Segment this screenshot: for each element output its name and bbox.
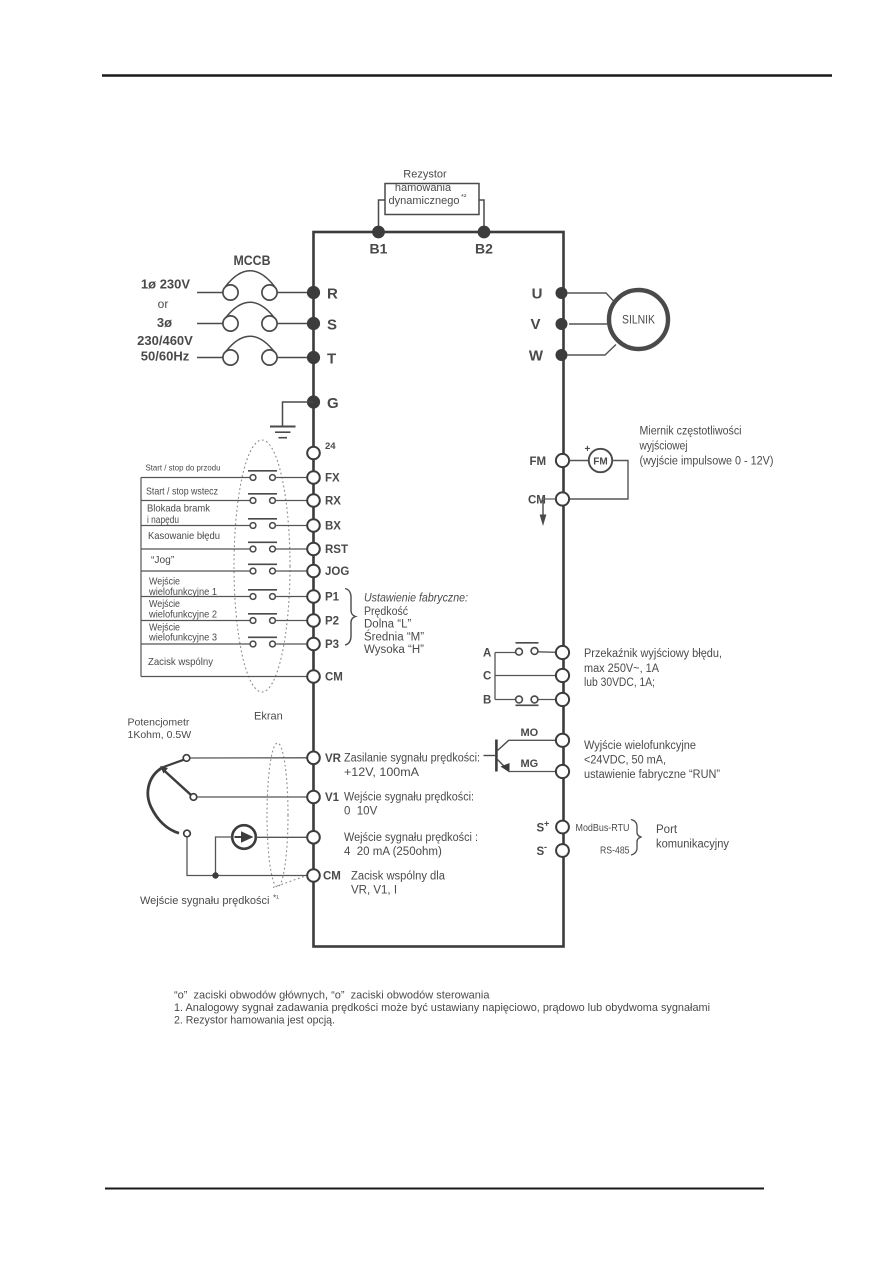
- svg-text:+: +: [585, 444, 591, 455]
- svg-text:U: U: [532, 286, 543, 303]
- terminal B1: [372, 226, 385, 239]
- svg-text:Rezystor: Rezystor: [403, 169, 447, 181]
- junction dot: [212, 872, 218, 878]
- potentiometer wiper terminal: [190, 794, 197, 801]
- svg-text:wielofunkcyjne 3: wielofunkcyjne 3: [148, 633, 217, 644]
- terminal FM: [556, 454, 569, 467]
- svg-text:2. Rezystor hamowania jest opc: 2. Rezystor hamowania jest opcją.: [174, 1015, 335, 1027]
- relay bracket wire: [494, 653, 496, 700]
- footnotes: [174, 990, 710, 1027]
- svg-text:“Jog”: “Jog”: [151, 555, 175, 566]
- wire emitter to MG: [509, 771, 556, 773]
- terminal W: [556, 349, 568, 361]
- terminal V: [556, 318, 568, 330]
- svg-text:MO: MO: [521, 727, 539, 739]
- svg-text:max 250V~, 1A: max 250V~, 1A: [584, 663, 659, 675]
- svg-text:50/60Hz: 50/60Hz: [141, 349, 190, 364]
- terminal S-: [556, 844, 569, 857]
- wire pot bottom to CM: [187, 837, 307, 876]
- terminal S: [307, 317, 320, 330]
- terminal B: [556, 693, 569, 706]
- svg-text:FM: FM: [530, 456, 547, 468]
- svg-text:A: A: [483, 648, 491, 660]
- svg-text:R: R: [327, 286, 338, 303]
- terminal A: [556, 646, 569, 659]
- svg-text:-: -: [544, 842, 547, 852]
- svg-text:RS-485: RS-485: [600, 846, 630, 857]
- svg-text:lub 30VDC, 1A;: lub 30VDC, 1A;: [584, 677, 655, 689]
- switch P3 (Wejscie wielofunkcyjne 3): [141, 623, 307, 647]
- svg-text:Zasilanie sygnału prędkości:: Zasilanie sygnału prędkości:: [344, 753, 480, 765]
- svg-text:MG: MG: [521, 758, 539, 770]
- terminal P2: [307, 614, 320, 627]
- switch RST (Kasowanie bledu): [141, 531, 307, 552]
- svg-text:P1: P1: [325, 592, 340, 604]
- svg-text:P2: P2: [325, 616, 339, 628]
- svg-text:or: or: [158, 297, 169, 311]
- svg-text:komunikacyjny: komunikacyjny: [656, 839, 729, 851]
- terminal CM analog: [307, 869, 320, 882]
- svg-text:S: S: [327, 317, 337, 334]
- wire G to ground: [283, 402, 314, 427]
- transistor (open collector output): [484, 740, 510, 773]
- potentiometer R track arc: [148, 767, 179, 833]
- terminal B2: [478, 226, 491, 239]
- svg-text:SILNIK: SILNIK: [622, 315, 655, 327]
- svg-text:B1: B1: [370, 241, 388, 257]
- svg-text:0 10V: 0 10V: [344, 806, 378, 818]
- FM annotation: [639, 426, 774, 468]
- potentiometer top terminal: [183, 755, 190, 762]
- terminal T: [307, 351, 320, 364]
- relay contact B (NO): [483, 695, 556, 707]
- FM meter: [569, 444, 612, 472]
- svg-text:wyjściowej: wyjściowej: [639, 441, 688, 453]
- motor SILNIK: [609, 290, 668, 349]
- shield ellipse (Ekran) around digital inputs: [234, 440, 290, 692]
- wire B1 riser: [379, 200, 386, 232]
- terminal FX: [307, 471, 320, 484]
- left common bus wire: [140, 478, 142, 677]
- svg-text:V: V: [530, 316, 540, 333]
- svg-text:JOG: JOG: [325, 566, 349, 578]
- terminal U: [556, 287, 568, 299]
- factory setting text: [364, 593, 468, 657]
- terminal RX: [307, 494, 320, 507]
- svg-text:Wejście sygnału prędkości :: Wejście sygnału prędkości :: [344, 832, 478, 844]
- svg-text:Port: Port: [656, 824, 678, 836]
- terminal BX: [307, 519, 320, 532]
- terminal JOG: [307, 565, 320, 578]
- svg-text:*²: *²: [461, 192, 467, 201]
- CM arrow to ground: [542, 498, 556, 500]
- svg-text:i napędu: i napędu: [147, 515, 179, 526]
- svg-text:wielofunkcyjne 2: wielofunkcyjne 2: [148, 610, 217, 621]
- terminal R: [307, 286, 320, 299]
- wire V to motor: [569, 323, 608, 325]
- svg-text:RST: RST: [325, 544, 348, 556]
- svg-text:3ø: 3ø: [157, 315, 172, 330]
- svg-text:“o” zaciski obwodów głównych,: “o” zaciski obwodów głównych, “o” zacisk…: [174, 990, 490, 1002]
- analog input annotations: [344, 753, 480, 897]
- svg-text:*¹: *¹: [273, 894, 279, 903]
- ground symbol: [270, 427, 296, 438]
- terminal I: [307, 831, 320, 844]
- svg-text:Wejście: Wejście: [149, 577, 180, 588]
- wire current source to I terminal: [256, 836, 307, 838]
- brace P1-P3 factory settings: [345, 589, 356, 646]
- svg-text:Ustawienie fabryczne:: Ustawienie fabryczne:: [364, 593, 468, 605]
- switch P2 (Wejscie wielofunkcyjne 2): [141, 599, 307, 623]
- relay contact A (NC): [483, 643, 556, 660]
- svg-text:Przekaźnik wyjściowy błędu,: Przekaźnik wyjściowy błędu,: [584, 648, 722, 660]
- svg-text:4 20 mA (250ohm): 4 20 mA (250ohm): [344, 846, 442, 858]
- svg-text:Średnia “M”: Średnia “M”: [364, 631, 424, 644]
- switch JOG: [141, 555, 307, 574]
- svg-text:ustawienie fabryczne “RUN”: ustawienie fabryczne “RUN”: [584, 769, 720, 781]
- svg-text:Blokada bramk: Blokada bramk: [147, 504, 211, 515]
- shield tail to CM: [273, 877, 304, 888]
- terminal S+: [556, 821, 569, 834]
- svg-text:Kasowanie błędu: Kasowanie błędu: [148, 531, 220, 542]
- svg-text:MCCB: MCCB: [234, 252, 271, 268]
- terminal MG: [556, 765, 569, 778]
- wire B2 riser: [479, 200, 485, 232]
- svg-text:G: G: [327, 395, 339, 412]
- switch BX (Blokada bramk i napedu): [141, 504, 307, 529]
- terminal MO: [556, 734, 569, 747]
- svg-text:+: +: [544, 819, 549, 829]
- relay common C: [483, 671, 556, 683]
- PAGE_RULES: [102, 74, 832, 76]
- terminal P1: [307, 590, 320, 603]
- svg-text:Prędkość: Prędkość: [364, 606, 408, 618]
- svg-text:BX: BX: [325, 521, 341, 533]
- svg-text:<24VDC, 50 mA,: <24VDC, 50 mA,: [584, 755, 666, 767]
- wire current source to CM junction: [216, 837, 233, 876]
- wire U to motor: [567, 293, 615, 303]
- svg-text:RX: RX: [325, 496, 341, 508]
- shield ellipse 2 (analog inputs): [267, 743, 288, 887]
- svg-text:VR: VR: [325, 753, 342, 765]
- wire pot wiper to V1: [197, 796, 307, 798]
- svg-text:W: W: [529, 347, 544, 364]
- inverter outline: [314, 232, 564, 947]
- breaker pole R: [197, 271, 307, 300]
- wire collector to MO: [509, 739, 556, 741]
- switch RX (Start/stop wstecz): [141, 487, 307, 504]
- svg-text:T: T: [327, 351, 336, 368]
- svg-text:CM: CM: [323, 871, 341, 883]
- breaker pole S: [197, 302, 307, 331]
- svg-text:P3: P3: [325, 639, 339, 651]
- breaker pole T: [197, 336, 307, 365]
- wire pot top to VR: [190, 757, 307, 759]
- svg-text:FX: FX: [325, 473, 340, 485]
- terminal 24: [307, 447, 320, 460]
- svg-text:C: C: [483, 671, 491, 683]
- terminal C: [556, 669, 569, 682]
- terminal CM (FM return): [556, 492, 569, 505]
- current source (4-20mA): [232, 825, 256, 849]
- svg-text:Start / stop do przodu: Start / stop do przodu: [146, 463, 221, 473]
- svg-text:B2: B2: [475, 241, 493, 257]
- wire W to motor: [567, 345, 616, 356]
- comm brace: [631, 820, 642, 856]
- resistor box (brake resistor): [385, 169, 479, 215]
- svg-text:B: B: [483, 695, 491, 707]
- multifunction output annotation: [584, 740, 720, 781]
- svg-text:FM: FM: [593, 457, 607, 468]
- wire FM meter to CM: [569, 461, 628, 500]
- svg-text:V1: V1: [325, 792, 340, 804]
- terminal G: [307, 395, 320, 408]
- svg-text:Zacisk wspólny dla: Zacisk wspólny dla: [351, 871, 446, 883]
- svg-text:Start / stop wstecz: Start / stop wstecz: [146, 487, 218, 498]
- switch P1 (Wejscie wielofunkcyjne 1): [141, 577, 307, 600]
- terminal V1: [307, 791, 320, 804]
- svg-text:ModBus-RTU: ModBus-RTU: [576, 823, 630, 834]
- svg-text:Wysoka “H”: Wysoka “H”: [364, 644, 424, 656]
- potentiometer bottom terminal: [184, 830, 191, 837]
- svg-text:Dolna “L”: Dolna “L”: [364, 619, 411, 631]
- potentiometer wiper: [163, 770, 191, 795]
- svg-text:1ø 230V: 1ø 230V: [141, 277, 190, 292]
- svg-text:+12V, 100mA: +12V, 100mA: [344, 767, 419, 779]
- terminal RST: [307, 543, 320, 556]
- svg-text:Potencjometr: Potencjometr: [128, 717, 190, 729]
- terminal P3: [307, 638, 320, 651]
- svg-text:1Kohm, 0.5W: 1Kohm, 0.5W: [128, 729, 192, 741]
- terminal VR: [307, 752, 320, 765]
- svg-text:Miernik częstotliwości: Miernik częstotliwości: [640, 426, 742, 438]
- svg-text:1. Analogowy sygnał zadawania: 1. Analogowy sygnał zadawania prędkości …: [174, 1002, 710, 1014]
- relay annotation: [584, 648, 722, 689]
- svg-text:Wejście: Wejście: [149, 599, 180, 610]
- svg-text:CM: CM: [325, 672, 343, 684]
- svg-text:Wejście sygnału prędkości: Wejście sygnału prędkości: [140, 895, 269, 907]
- switch FX (Start/stop do przodu): [141, 463, 307, 481]
- svg-text:Wejście sygnału prędkości:: Wejście sygnału prędkości:: [344, 792, 474, 804]
- svg-text:Zacisk wspólny: Zacisk wspólny: [148, 657, 214, 668]
- terminal CM: [307, 670, 320, 683]
- svg-text:dynamicznego: dynamicznego: [389, 195, 460, 207]
- svg-text:24: 24: [325, 441, 336, 452]
- svg-text:(wyjście impulsowe 0 - 12V): (wyjście impulsowe 0 - 12V): [640, 456, 774, 468]
- svg-text:Wyjście wielofunkcyjne: Wyjście wielofunkcyjne: [584, 740, 696, 752]
- svg-text:VR, V1, I: VR, V1, I: [351, 885, 397, 897]
- svg-text:230/460V: 230/460V: [137, 333, 193, 348]
- supply rating text: [137, 277, 193, 364]
- svg-text:Ekran: Ekran: [254, 711, 283, 723]
